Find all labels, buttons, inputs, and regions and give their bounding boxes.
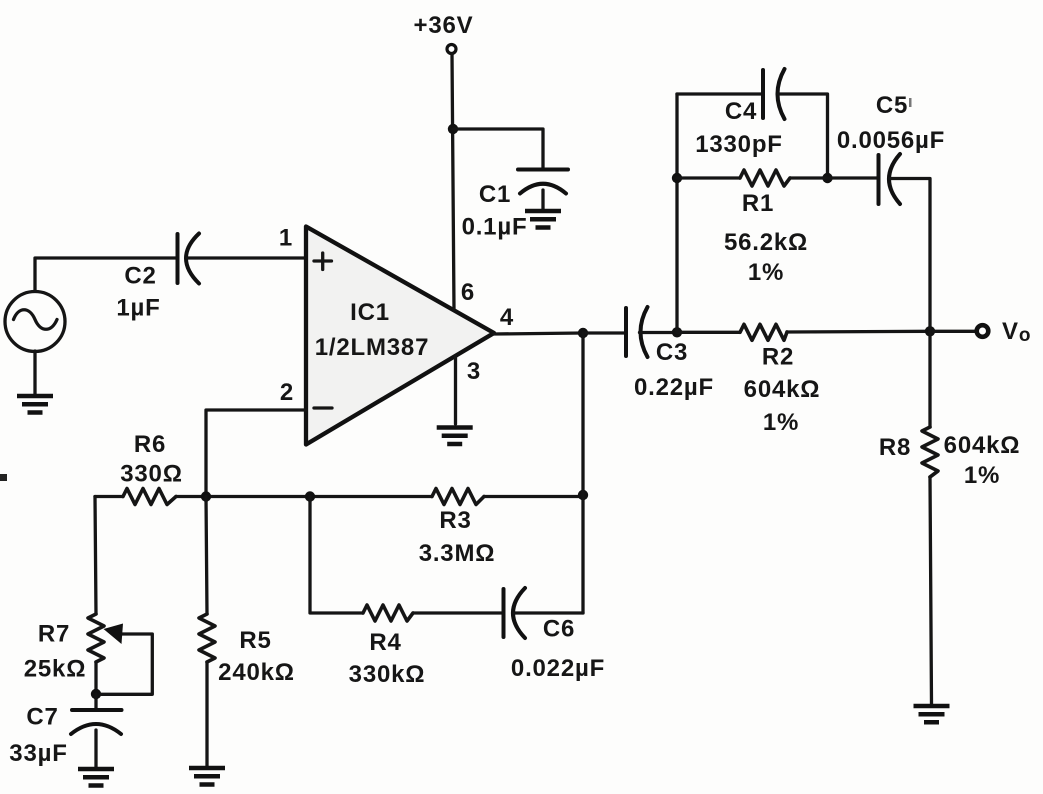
svg-text:330kΩ: 330kΩ: [349, 661, 426, 688]
svg-text:IC1: IC1: [350, 299, 390, 326]
svg-text:R3: R3: [439, 507, 471, 534]
svg-text:240kΩ: 240kΩ: [218, 659, 295, 686]
svg-text:33µF: 33µF: [9, 740, 67, 767]
svg-text:0.0056µF: 0.0056µF: [837, 127, 945, 154]
svg-text:0.022µF: 0.022µF: [511, 655, 605, 682]
svg-text:56.2kΩ: 56.2kΩ: [724, 229, 808, 256]
svg-text:C5: C5: [876, 92, 908, 119]
svg-text:C7: C7: [26, 704, 58, 731]
svg-text:1µF: 1µF: [116, 295, 160, 322]
svg-text:1330pF: 1330pF: [695, 131, 783, 158]
svg-text:604kΩ: 604kΩ: [744, 376, 821, 403]
svg-text:R5: R5: [239, 627, 271, 654]
svg-text:C4: C4: [725, 98, 757, 125]
svg-text:4: 4: [500, 304, 514, 331]
svg-text:2: 2: [280, 379, 294, 406]
svg-text:1%: 1%: [964, 462, 1000, 489]
svg-text:R1: R1: [742, 190, 774, 217]
svg-text:0.22µF: 0.22µF: [634, 374, 714, 401]
svg-text:604kΩ: 604kΩ: [944, 432, 1021, 459]
svg-text:6: 6: [461, 279, 475, 306]
svg-text:C1: C1: [479, 181, 511, 208]
svg-text:330Ω: 330Ω: [120, 461, 183, 488]
svg-text:C6: C6: [543, 616, 575, 643]
svg-text:1/2LM387: 1/2LM387: [315, 334, 429, 361]
svg-text:25kΩ: 25kΩ: [24, 656, 87, 683]
svg-text:R8: R8: [879, 434, 911, 461]
svg-text:+36V: +36V: [414, 12, 474, 39]
svg-text:C2: C2: [124, 263, 156, 290]
svg-text:3: 3: [467, 358, 481, 385]
svg-text:R4: R4: [369, 629, 401, 656]
svg-text:0.1µF: 0.1µF: [462, 214, 528, 241]
svg-text:1: 1: [279, 225, 293, 252]
svg-text:1%: 1%: [763, 409, 799, 436]
svg-text:C3: C3: [656, 339, 688, 366]
svg-text:3.3MΩ: 3.3MΩ: [419, 540, 496, 567]
svg-text:R2: R2: [762, 344, 794, 371]
svg-text:R6: R6: [134, 431, 166, 458]
svg-text:1%: 1%: [748, 259, 784, 286]
svg-text:R7: R7: [38, 621, 70, 648]
